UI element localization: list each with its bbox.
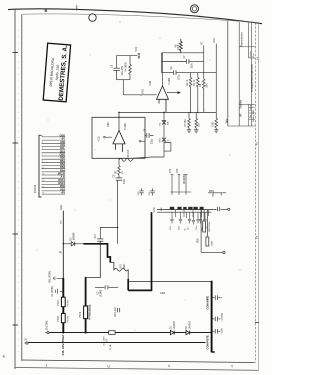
branch wire left (100, 227, 117, 239)
svg-text:10K: 10K (168, 121, 170, 125)
decoupling caps row (170, 210, 206, 224)
svg-text:J2 (COM): J2 (COM) (47, 321, 49, 331)
svg-text:1N4007: 1N4007 (189, 320, 192, 329)
net VCC vertical (215, 44, 217, 113)
capacitor C7 (186, 59, 189, 64)
right bus thick (211, 281, 213, 352)
svg-text:U6B: U6B (149, 81, 152, 86)
connector pin name labels (58, 134, 66, 194)
svg-text:R2 1K: R2 1K (187, 79, 189, 86)
svg-text:U: U (108, 364, 111, 368)
svg-text:CON2: CON2 (33, 184, 37, 193)
extra stub caps (187, 210, 209, 225)
supply rail 2 (157, 211, 212, 213)
ground below R12b (214, 130, 218, 133)
diode D3 branch wire (63, 243, 84, 245)
bottom wire 2 (29, 342, 206, 344)
svg-text:1: 1 (256, 57, 258, 61)
margin tick left 1 (13, 52, 19, 54)
top edge stray mark (76, 5, 78, 11)
resistor R3 (197, 73, 200, 113)
junction bus-wire1 (62, 332, 64, 334)
svg-text:220p: 220p (152, 138, 154, 144)
PTC2 body (61, 313, 65, 322)
extra stub labels (185, 226, 209, 231)
svg-text:GND: GND (212, 122, 214, 127)
resistor R2 (189, 73, 192, 113)
svg-text:*: * (221, 297, 223, 301)
caps row values (170, 225, 198, 230)
punch hole left (89, 14, 96, 21)
svg-text:S2 6A: S2 6A (109, 344, 112, 350)
svg-text:1: 1 (42, 136, 44, 138)
margin tick left 4 (13, 324, 19, 326)
border inner left (21, 15, 23, 362)
resistor R8 squiggle (119, 157, 164, 161)
svg-text:VR1: VR1 (135, 46, 138, 51)
svg-text:+5V: +5V (60, 192, 65, 195)
wire input RC top (117, 56, 138, 68)
svg-text:15: 15 (42, 180, 45, 182)
svg-text:Y: Y (231, 364, 234, 368)
bus bottom hook (212, 351, 215, 353)
junction D3 end (83, 243, 85, 245)
resistor R17 body (206, 237, 209, 246)
svg-text:(COM): (COM) (101, 290, 103, 297)
junction PTC3-wire1 (85, 332, 87, 334)
svg-text:PTC1: PTC1 (58, 299, 60, 306)
svg-text:100n: 100n (196, 225, 198, 230)
corner scan mark (3, 355, 6, 358)
svg-text:20K: 20K (206, 83, 208, 88)
svg-text:3: 3 (42, 142, 44, 144)
svg-text:PV765: PV765 (67, 299, 69, 306)
clamp chain vertical (163, 112, 165, 157)
svg-text:1N4148: 1N4148 (74, 232, 76, 241)
svg-text:F1: F1 (107, 338, 109, 341)
paper top edge (8, 9, 262, 24)
svg-text:VC: VC (200, 41, 203, 45)
svg-text:VR1: VR1 (160, 138, 162, 143)
capacitor C4 (105, 285, 108, 289)
wire PRA (208, 193, 226, 196)
bus cap stub 3 (212, 329, 221, 334)
svg-text:1K: 1K (122, 171, 124, 174)
svg-text:Title: Title (226, 118, 229, 123)
title block divider 2 (249, 57, 256, 59)
PTC3 body (84, 306, 88, 319)
svg-text:J1: J1 (26, 338, 28, 341)
svg-text:5: 5 (42, 148, 44, 150)
margin tick left 2 (13, 142, 19, 144)
svg-text:C:\DIMESTRES\5400.SCH: C:\DIMESTRES\5400.SCH (252, 64, 254, 92)
svg-text:Fecha: Fecha (250, 104, 252, 111)
clamp loop (164, 143, 171, 152)
svg-text:JP2: JP2 (176, 168, 179, 173)
connector pins (42, 137, 66, 194)
rail label tag 5 (200, 207, 204, 210)
svg-text:TL082: TL082 (124, 123, 127, 131)
triac vertical 2 (203, 210, 205, 221)
connector pin numbers (42, 136, 45, 195)
capacitor C16 stub (150, 188, 154, 195)
title block col 3 (248, 23, 250, 58)
svg-text:11: 11 (42, 167, 45, 169)
svg-text:JP: JP (61, 250, 63, 253)
diode D6 (162, 121, 166, 125)
triac vertical 3 (206, 210, 208, 237)
svg-text:JP1: JP1 (169, 168, 172, 173)
svg-text:A: A (167, 139, 170, 141)
title block left line (227, 21, 229, 126)
resistor R5 (179, 39, 182, 53)
svg-text:100n: 100n (178, 74, 180, 80)
U6B output feedback wire (162, 53, 164, 86)
svg-text:D3: D3 (70, 237, 72, 241)
title block row dividers (249, 107, 256, 119)
PTC3 lower lead (85, 319, 87, 333)
svg-text:U5A: U5A (107, 122, 110, 127)
right stair thick (84, 244, 110, 263)
margin dotted texture (17, 30, 19, 355)
diode D4 marker (118, 308, 120, 312)
capacitor C15 stub (139, 188, 143, 195)
svg-text:C16: C16 (149, 191, 151, 196)
svg-text:MOC3041: MOC3041 (209, 221, 211, 232)
wire H2 with C4 (95, 286, 118, 288)
svg-text:C7: C7 (184, 55, 186, 59)
title block col 2 (238, 22, 240, 126)
wire below box (118, 158, 120, 165)
svg-text:9: 9 (42, 161, 44, 163)
diode D1 (170, 331, 174, 335)
svg-text:C2: C2 (97, 291, 99, 295)
svg-text:10u: 10u (188, 227, 190, 230)
svg-text:R1: R1 (160, 122, 162, 126)
border inner right (254, 23, 256, 363)
border outer right (257, 24, 259, 370)
triac vertical 1 (200, 210, 202, 253)
title block col3 lower (248, 104, 250, 126)
svg-text:2: 2 (256, 142, 258, 146)
svg-text:2: 2 (256, 236, 258, 240)
junction U5A out (118, 112, 120, 114)
svg-text:3V3: 3V3 (61, 219, 63, 224)
title block divider 3 (239, 103, 255, 105)
svg-text:R11 (COM): R11 (COM) (50, 271, 52, 283)
resistor R12b (215, 112, 218, 129)
svg-text:0R47: 0R47 (124, 263, 126, 269)
svg-text:10K: 10K (198, 122, 200, 127)
terminal in box (139, 140, 145, 142)
wire H1 to bus (128, 280, 211, 282)
svg-text:C10: C10 (95, 234, 97, 239)
svg-text:GR4: GR4 (160, 292, 166, 295)
stair to H1 (128, 279, 151, 290)
connector CON2 body (39, 135, 42, 197)
U6B output arrow (167, 92, 180, 94)
svg-text:10u: 10u (185, 228, 187, 231)
rail right caps (218, 207, 228, 211)
jumper stubs cluster (170, 175, 191, 195)
resistor R10 squiggle (110, 263, 128, 280)
svg-text:n (COM): n (COM) (222, 313, 224, 321)
bottom wire 1 (50, 332, 212, 334)
rail label tag 4 (193, 207, 197, 210)
capacitor C7 wire (162, 61, 204, 63)
wire to U6B input (123, 80, 156, 95)
svg-text:1N4007: 1N4007 (173, 320, 176, 329)
punch hole right (191, 5, 199, 13)
capacitor C1 stub (55, 289, 63, 294)
rail label tag 2 (177, 207, 181, 210)
U5A output wire up (118, 112, 120, 130)
svg-text:1: 1 (46, 364, 48, 368)
op-amp U5A (113, 131, 125, 153)
op-amp U6B (157, 86, 169, 113)
svg-text:VDD: VDD (154, 207, 156, 212)
junction clamp top (163, 112, 165, 114)
rail label tag 6 (183, 207, 186, 209)
capacitor C8 (145, 133, 154, 138)
diode D3 (71, 242, 75, 246)
PTC1 body (61, 297, 65, 307)
svg-text:PV765: PV765 (67, 315, 69, 322)
svg-text:Doc: Doc (253, 52, 255, 57)
rail label tag 3 (188, 207, 192, 210)
resistor R4 (129, 56, 132, 80)
U5A VDD lead (104, 136, 113, 138)
scan speckles (37, 22, 241, 331)
svg-text:C15: C15 (138, 191, 140, 196)
stamp DEMESTRES S.A. (43, 43, 70, 102)
svg-text:VCC: VCC (213, 38, 216, 43)
left bus upper (62, 211, 64, 278)
terminal bottom (223, 251, 225, 253)
svg-text:R10: R10 (121, 264, 123, 269)
wire RC bottom (117, 79, 130, 81)
svg-text:COM PISTE: COM PISTE (206, 335, 210, 350)
svg-text:A4: A4 (240, 113, 243, 117)
svg-text:Fecha: Fecha (250, 50, 252, 57)
long vertical wire (117, 180, 119, 244)
thick drop from rail (151, 212, 153, 290)
bus cap stub 1 (212, 295, 221, 300)
svg-text:100n: 100n (179, 225, 181, 230)
bus cap stub 2 (212, 317, 221, 322)
capacitor C10 (97, 239, 103, 241)
svg-text:C5: C5 (111, 64, 114, 68)
left bus thick lower (62, 278, 64, 333)
resistor R10b (195, 112, 198, 129)
svg-text:4: 4 (168, 364, 170, 368)
border outer left (14, 10, 16, 370)
diode D2 (186, 331, 190, 335)
left stair wire (86, 241, 101, 277)
resistor R9 (118, 166, 121, 178)
capacitor C6 (174, 70, 177, 75)
border outer bottom (15, 368, 259, 371)
title block col 4 (251, 23, 253, 126)
svg-text:R8 15K: R8 15K (128, 149, 130, 157)
margin tick right 4 (255, 322, 259, 324)
capacitor C5 (113, 68, 120, 80)
svg-text:PRA: PRA (209, 190, 214, 193)
svg-text:C1 (COM): C1 (COM) (52, 286, 54, 296)
ground below R10b (194, 130, 198, 133)
svg-text:360R: 360R (211, 240, 213, 246)
svg-text:R7 20K: R7 20K (185, 119, 187, 127)
wire W2 (162, 52, 204, 54)
svg-text:TL082: TL082 (168, 77, 171, 85)
terminal VR1 (135, 46, 140, 58)
svg-text:V.B. 24V-50HZ: V.B. 24V-50HZ (61, 335, 65, 356)
border inner bottom (22, 360, 256, 363)
svg-text:VDD: VDD (143, 89, 145, 94)
svg-text:R6: R6 (199, 83, 202, 87)
svg-text:7: 7 (42, 155, 44, 157)
terminal J1 (25, 342, 29, 344)
stub R11 (53, 277, 63, 281)
svg-text:MC34064: MC34064 (184, 173, 186, 184)
svg-text:COM WIRE: COM WIRE (206, 296, 210, 310)
ground below R7 (187, 130, 191, 133)
title block bottom (228, 125, 256, 127)
title block divider 1 (239, 46, 255, 48)
supply rail 1 (157, 209, 217, 211)
capacitor C9 (116, 178, 123, 180)
amplifier box U5A (92, 117, 145, 158)
svg-text:R9: R9 (115, 170, 117, 174)
rail mid horizontal (119, 111, 216, 113)
svg-text:17: 17 (42, 186, 45, 188)
svg-text:D4 (LED): D4 (LED) (115, 307, 117, 317)
svg-text:B: B (45, 9, 48, 13)
svg-text:100n: 100n (170, 225, 172, 230)
svg-text:100n: 100n (124, 178, 126, 184)
svg-text:Number: Number (240, 99, 243, 108)
svg-text:COM: COM (222, 328, 224, 333)
svg-text:100K: 100K (178, 44, 180, 50)
svg-text:19: 19 (42, 193, 45, 195)
svg-text:13: 13 (42, 174, 45, 176)
svg-text:Revisiones: Revisiones (240, 32, 244, 47)
resistor R6 (202, 79, 205, 112)
border inner top (22, 14, 255, 22)
terminal J2 (45, 332, 49, 334)
opto U7 body (203, 221, 206, 232)
svg-text:100n: 100n (191, 63, 193, 69)
triac bottom wire (201, 251, 222, 253)
terminal rail end (228, 208, 230, 210)
svg-text:LED: LED (59, 205, 63, 210)
svg-text:6n3 250V: 6n3 250V (103, 336, 105, 346)
svg-text:10-May-2001: 10-May-2001 (253, 109, 255, 122)
net VC vertical (203, 46, 205, 80)
fuse F1 (109, 331, 115, 335)
margin tick left 3 (13, 233, 19, 235)
svg-text:VDD: VDD (99, 136, 101, 141)
svg-text:C6: C6 (171, 66, 173, 70)
svg-text:PTC2: PTC2 (58, 315, 60, 322)
thick stair down to PTC3 (85, 278, 87, 306)
svg-text:R3 1K: R3 1K (194, 79, 196, 86)
varistor VR2 (162, 138, 166, 142)
svg-text:VDD: VDD (198, 238, 200, 243)
capacitor C6 wire (162, 53, 217, 73)
svg-text:R4 390K: R4 390K (125, 62, 128, 72)
resistor R7 (188, 112, 191, 129)
rail label tag 1 (170, 207, 174, 210)
svg-text:PV765 (B&S): PV765 (B&S) (89, 305, 92, 320)
svg-text:PTC3: PTC3 (79, 311, 82, 318)
